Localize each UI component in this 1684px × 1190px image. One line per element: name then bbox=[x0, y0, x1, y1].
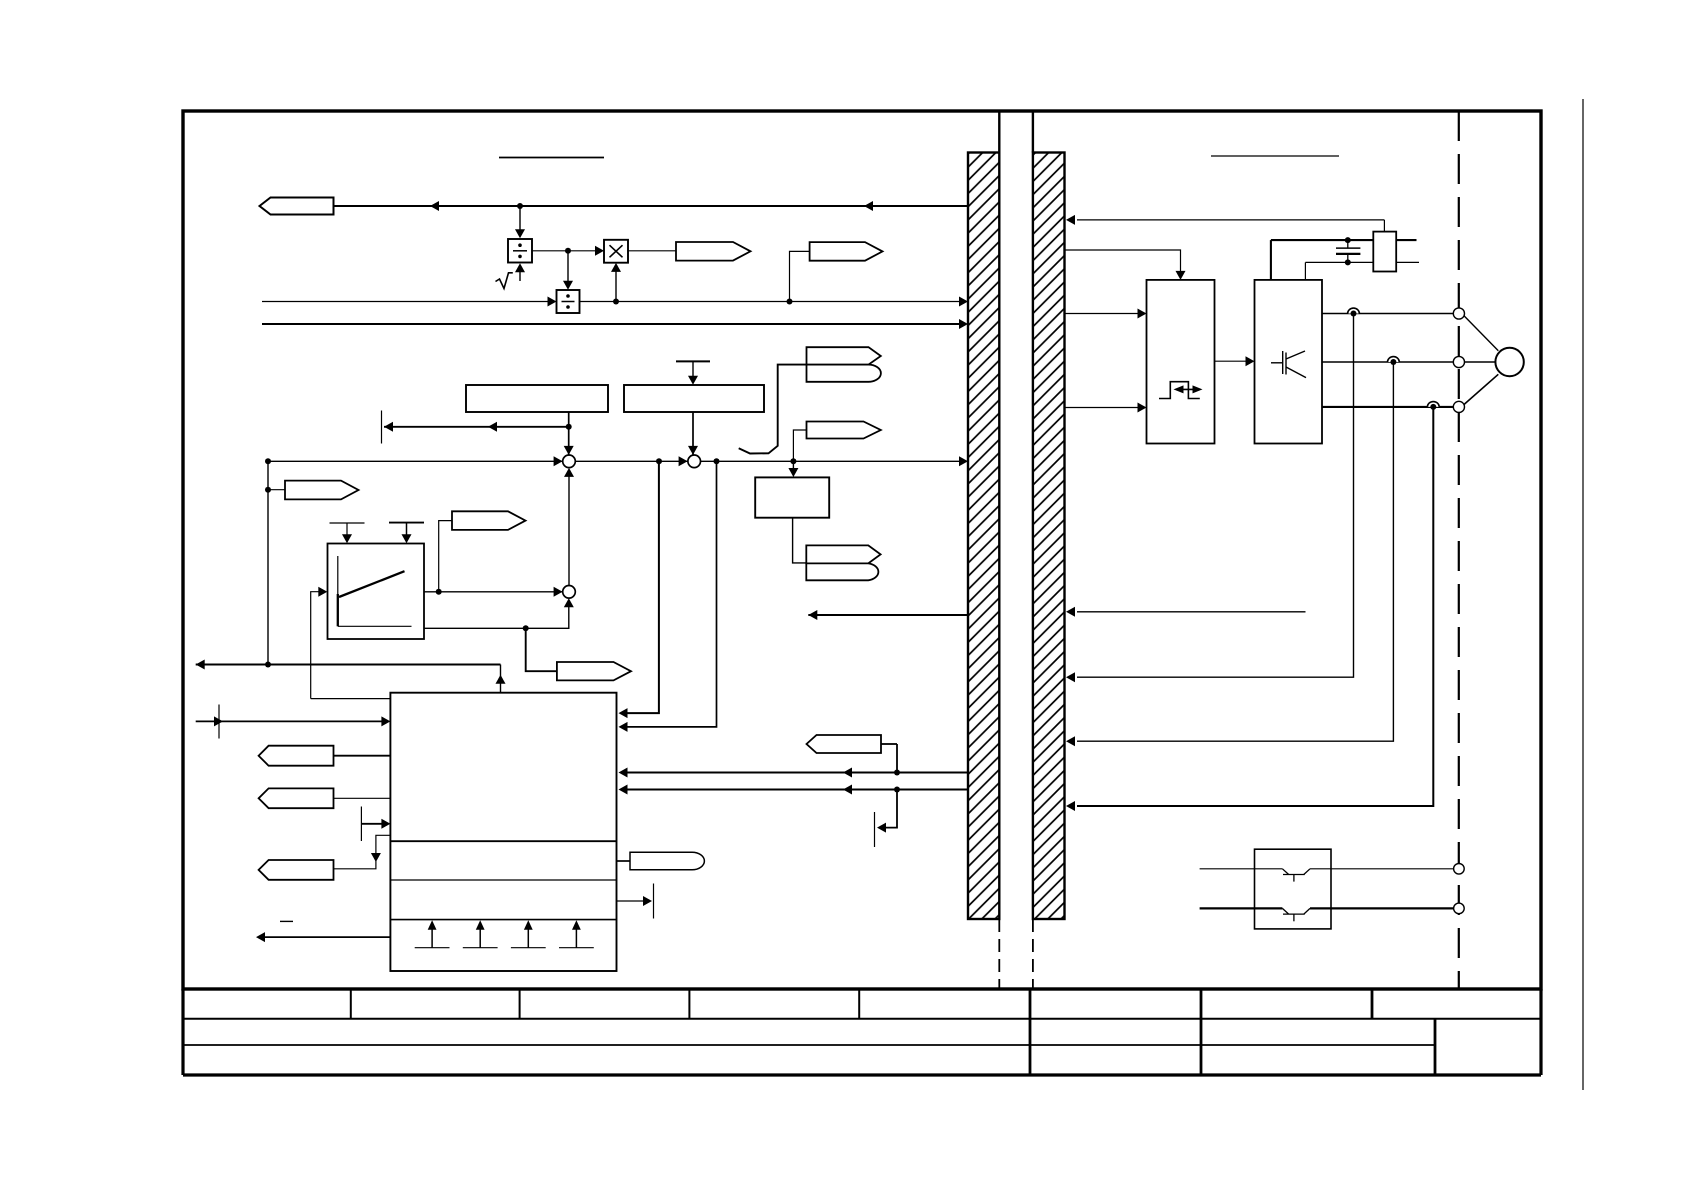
minus label dash bbox=[280, 920, 293, 922]
parameter box P1 bbox=[466, 385, 608, 412]
connector pair 2 upper (points right) bbox=[806, 545, 880, 563]
motor terminal V bbox=[1453, 356, 1464, 367]
wire: elbow with tick y=827.6 bbox=[875, 790, 898, 848]
T input above box P2 bbox=[676, 361, 710, 384]
IGBT symbol bbox=[1271, 351, 1306, 378]
right section title underline bbox=[1211, 155, 1339, 157]
wire: sensor U feedback bbox=[1066, 314, 1354, 683]
wire: gate unit to inverter bbox=[1215, 356, 1255, 366]
wire: hook from connector pair 1 bbox=[739, 365, 807, 454]
gap channel bottom dashed lines bbox=[999, 919, 1033, 989]
DC link capacitor bbox=[1336, 240, 1360, 262]
page fold line bbox=[1582, 99, 1584, 1090]
output connector (points left) bbox=[260, 198, 334, 215]
phase line U y=313.5 bbox=[1322, 313, 1453, 315]
phase line W y=406.9 bbox=[1322, 406, 1453, 408]
wire: sensor W feedback bbox=[1066, 407, 1433, 811]
main control box bbox=[390, 693, 616, 971]
title block outline bbox=[183, 989, 1541, 1075]
wire: sensor V feedback bbox=[1066, 362, 1393, 746]
summing junction S2 bbox=[688, 455, 701, 468]
connector pair 2 lower (rounded) bbox=[806, 563, 878, 580]
braking line + (y=868.8) bbox=[1200, 868, 1454, 870]
current sensor V bbox=[1388, 357, 1400, 365]
wire: bottom output to left bbox=[256, 932, 390, 942]
drawing frame border bbox=[183, 111, 1541, 989]
connector D (points left) bbox=[807, 735, 898, 753]
gap channel top lines bbox=[999, 111, 1033, 153]
ramp-function generator box bbox=[328, 544, 425, 640]
connector A (points right) bbox=[676, 242, 751, 261]
wire: terminal W to motor bbox=[1464, 374, 1498, 404]
parameter box P2 bbox=[624, 385, 764, 412]
braking transistor 1 bbox=[1282, 869, 1310, 882]
inverter box bbox=[1255, 280, 1323, 444]
wire: P1 down to summing S1 bbox=[564, 412, 574, 455]
current sensor U bbox=[1348, 308, 1360, 316]
braking line - (y=908.4) bbox=[1200, 907, 1454, 909]
wire: ramp output to S3 bbox=[424, 587, 563, 597]
wire: feedback from S-line down into box y=713.1 bbox=[619, 461, 659, 718]
left vertical distribution wire x=268 bbox=[265, 461, 271, 667]
connector pair 1 lower (rounded) bbox=[807, 365, 881, 382]
wire: DC- rail bbox=[1305, 259, 1419, 265]
wire: S3 up to S1 bbox=[564, 468, 574, 586]
summing junction S3 bbox=[563, 586, 576, 599]
wire: signal from power side y=611.8 bbox=[1066, 607, 1306, 617]
wire: connector B stub to frequency line bbox=[790, 251, 810, 301]
gate unit box bbox=[1147, 280, 1215, 444]
braking chopper box bbox=[1255, 849, 1332, 929]
wire: DC- down to inverter bbox=[1304, 262, 1306, 280]
wire: feedback down into box y=726.9 bbox=[619, 461, 717, 732]
wire: actual value bus y=206 bbox=[334, 201, 969, 211]
wire: DC+ rail bbox=[1271, 237, 1417, 243]
wire: status output right with tick bbox=[617, 884, 654, 919]
wire: box out elbow to connector F3 bbox=[334, 835, 391, 869]
wire: drop to divider 2 bbox=[563, 251, 573, 290]
wire: terminal U to motor bbox=[1464, 316, 1498, 351]
wire: corner down to fuse bbox=[1383, 220, 1385, 232]
connector V2 (points right) bbox=[557, 662, 631, 680]
wire: limit arrow line y=426.8 with end tick bbox=[382, 411, 569, 444]
wire: feedback line y=789.5 bbox=[619, 785, 969, 795]
wire: input with tick y=823.8 bbox=[361, 807, 390, 842]
left section title underline bbox=[499, 157, 604, 159]
wire: control into gate unit y=407.5 bbox=[1065, 403, 1147, 413]
motor terminal W bbox=[1453, 401, 1464, 412]
divider block U1 bbox=[508, 239, 532, 263]
wire: main setpoint line y=461.3 bbox=[265, 456, 968, 466]
wire: feedback from main box to ramp bbox=[311, 698, 391, 700]
sqrt symbol bbox=[496, 273, 513, 289]
wire: continuation left of bars y=615 bbox=[808, 610, 968, 620]
T inputs into box bottom section bbox=[415, 920, 594, 947]
connector C (points right) bbox=[268, 481, 359, 500]
wire: DC+ down to inverter bbox=[1270, 240, 1272, 280]
multiplier block U2 bbox=[604, 240, 628, 263]
wire: DC feedback to interface y=219.9 bbox=[1066, 215, 1384, 225]
wire: down into parameter box P3 bbox=[788, 461, 798, 477]
summing junction S1 bbox=[563, 455, 576, 468]
wire: connector D drop bbox=[896, 744, 898, 773]
wire: drop to divider 1 bbox=[515, 206, 525, 238]
rounded connector G3 (status word) bbox=[617, 852, 705, 870]
gate pulse symbol bbox=[1159, 382, 1203, 399]
motor terminal U bbox=[1453, 308, 1464, 319]
T input 1 above ramp box bbox=[330, 523, 365, 543]
motor boundary dash-dot line bbox=[1458, 111, 1460, 989]
braking transistor 2 bbox=[1282, 908, 1310, 921]
connector V1 (points right) bbox=[439, 511, 526, 592]
wire: control into gate unit y=313.5 bbox=[1065, 309, 1147, 319]
connector F1 (points left) bbox=[259, 746, 391, 766]
connector F2 (points left) bbox=[259, 788, 391, 808]
parameter box P3 bbox=[755, 477, 829, 517]
wire: branch to connector V2 bbox=[526, 628, 557, 671]
braking terminal R1 bbox=[1454, 864, 1465, 875]
wire: P3 output to connector pair 2 bbox=[793, 518, 807, 563]
wire: P2 down to summing S2 bbox=[688, 412, 698, 455]
divider block U3 bbox=[557, 290, 580, 313]
wire: ramp lower output loop into S3 bbox=[424, 598, 574, 631]
connector pair 1 upper (points right) bbox=[807, 347, 881, 364]
connector E (points right) bbox=[793, 422, 880, 462]
wire: output line y=664.5 to left edge bbox=[196, 660, 501, 670]
fuse box bbox=[1373, 232, 1396, 272]
interface bar left (hatched) bbox=[968, 153, 999, 920]
current sensor W bbox=[1427, 402, 1439, 410]
wire: input line y=721.4 with tick bbox=[196, 705, 391, 739]
wire: divider1 out to multiplier bbox=[532, 246, 604, 256]
connector B (points right) bbox=[810, 242, 883, 261]
motor M bbox=[1495, 348, 1523, 376]
wire: pulse command from interface bbox=[1065, 250, 1186, 280]
wire: box output up to line y=664.5 bbox=[496, 665, 506, 693]
wire: multiplier out to connector A bbox=[628, 250, 676, 252]
wire: voltage bus y=324 bbox=[262, 319, 968, 329]
interface bar right (hatched) bbox=[1033, 153, 1065, 920]
connector F3 (points left) bbox=[259, 860, 334, 880]
wire: up arrow into multiplier bbox=[611, 263, 621, 302]
phase line V y=362 bbox=[1322, 361, 1453, 363]
wire: feedback line y=772.5 bbox=[619, 768, 969, 778]
wire: frequency line y=301.5 bbox=[262, 297, 968, 307]
braking terminal R2 bbox=[1454, 903, 1465, 914]
wire: terminal V to motor bbox=[1465, 361, 1496, 363]
T input 2 above ramp box bbox=[389, 523, 424, 544]
wire: up arrow into divider 1 bbox=[515, 263, 525, 281]
wire: feedback into ramp box bbox=[311, 587, 328, 699]
